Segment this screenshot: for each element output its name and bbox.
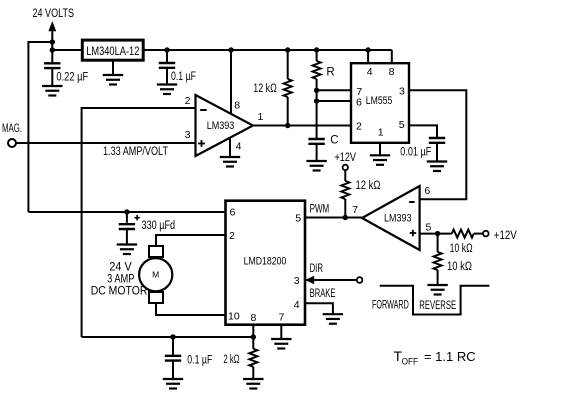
wire U4 pin5 — [420, 233, 452, 235]
svg-text:REVERSE: REVERSE — [419, 298, 456, 312]
capacitor C1 0.22uF — [44, 50, 60, 86]
capacitor C3 0.01uF — [429, 138, 445, 161]
op-amp U4 LM393 comparator — [362, 186, 420, 250]
svg-text:1: 1 — [378, 127, 384, 139]
svg-text:7: 7 — [352, 204, 358, 216]
svg-text:5: 5 — [426, 221, 432, 233]
wire comparator U1 pin4 to ground — [229, 138, 231, 157]
wire top rail — [143, 49, 392, 51]
ground C4 — [117, 245, 137, 255]
svg-text:24 V: 24 V — [109, 262, 132, 274]
svg-text:DIR: DIR — [310, 263, 323, 275]
svg-text:7: 7 — [279, 312, 285, 324]
resistor R1 12k vertical — [284, 50, 292, 126]
svg-text:8: 8 — [234, 100, 240, 112]
svg-text:3: 3 — [185, 129, 191, 141]
junction dot U2 pin4 rail — [365, 47, 370, 52]
junction dot R1 top — [285, 47, 290, 52]
ground C2 — [157, 85, 177, 95]
svg-text:DC MOTOR: DC MOTOR — [91, 285, 148, 297]
op-amp U1 LM393 comparator — [196, 95, 254, 156]
node +12V terminal upper — [335, 152, 357, 170]
svg-text:6: 6 — [230, 206, 236, 218]
wire U1 pin2 and left vertical rail — [82, 108, 196, 337]
svg-text:M: M — [152, 270, 159, 280]
svg-text:8: 8 — [389, 66, 395, 78]
svg-text:2: 2 — [356, 121, 362, 133]
wire pin6 LMD18200 horizontal — [28, 211, 226, 213]
wire U5 pin4 BRAKE to ground — [305, 303, 333, 314]
svg-text:1.33 AMP/VOLT: 1.33 AMP/VOLT — [103, 146, 168, 158]
svg-text:3: 3 — [294, 275, 300, 287]
svg-text:8: 8 — [251, 312, 257, 324]
resistor R3 10k horizontal — [452, 230, 483, 238]
junction dot R top — [314, 47, 319, 52]
ground C5 — [163, 379, 183, 389]
svg-text:5: 5 — [399, 119, 405, 131]
svg-text:3 AMP: 3 AMP — [107, 274, 135, 286]
ground U5 pin7 — [271, 339, 291, 349]
24V arrow terminal — [48, 21, 56, 50]
wire U5 pin7 ground stem — [280, 325, 282, 339]
svg-text:MAG.: MAG. — [2, 123, 22, 135]
wire motor bottom to U5 pin10 — [156, 303, 226, 315]
capacitor C timing — [308, 139, 324, 161]
svg-text:LM555: LM555 — [366, 95, 393, 107]
wire bottom rail — [82, 336, 254, 338]
svg-text:+12V: +12V — [494, 230, 517, 242]
wire 24V to regulator — [52, 49, 83, 51]
junction dot 330uF top — [124, 209, 129, 214]
capacitor C4 330uFd electrolytic — [119, 212, 140, 244]
wire motor top to U5 pin2 — [156, 235, 226, 246]
svg-text:2: 2 — [229, 230, 235, 242]
svg-text:0.01 µF: 0.01 µF — [400, 147, 431, 159]
svg-text:+12V: +12V — [335, 152, 357, 164]
resistor R5 2k vertical — [249, 337, 257, 379]
svg-text:3: 3 — [399, 85, 405, 97]
wire PWM LMD pin5 to U4 output — [305, 217, 362, 219]
resistor R4 10k vertical — [434, 234, 442, 285]
svg-text:LMD18200: LMD18200 — [244, 255, 287, 267]
ground C3 — [427, 162, 447, 172]
svg-text:R: R — [326, 67, 334, 79]
ground U2 pin1 — [370, 155, 390, 165]
capacitor C2 0.1uF — [159, 50, 175, 84]
svg-text:24 VOLTS: 24 VOLTS — [33, 8, 75, 20]
junction dot pin8 bottom rail — [251, 334, 256, 339]
junction dot C2 top — [164, 47, 169, 52]
regulator U3 LM340LA-12 — [82, 40, 143, 60]
svg-text:10: 10 — [228, 311, 240, 323]
svg-text:2 kΩ: 2 kΩ — [223, 354, 239, 366]
svg-text:6: 6 — [356, 96, 362, 108]
junction dot PWM node — [343, 215, 348, 220]
junction dot pin8 rail — [228, 47, 233, 52]
wire U2 pin6 — [317, 100, 351, 102]
svg-text:0.1 µF: 0.1 µF — [171, 71, 196, 83]
wire U1 output to U2 pin2 — [253, 125, 351, 127]
motor M1 — [139, 246, 172, 303]
node DIR terminal — [357, 277, 363, 283]
svg-text:LM340LA-12: LM340LA-12 — [86, 46, 139, 58]
junction dot 24V upper — [50, 39, 55, 44]
motor driver U5 LMD18200 — [226, 201, 306, 325]
wire U2 pin4 drop — [367, 50, 369, 63]
wire U2 pin7 — [317, 89, 351, 91]
junction dot pin6 — [314, 98, 319, 103]
ground C1 — [42, 86, 62, 96]
node +12V terminal right — [483, 230, 517, 242]
svg-text:12 kΩ: 12 kΩ — [356, 180, 381, 192]
svg-text:PWM: PWM — [310, 203, 330, 215]
svg-text:= 1.1 RC: = 1.1 RC — [424, 350, 476, 364]
svg-text:2: 2 — [185, 95, 191, 107]
ground U1 pin4 — [220, 157, 240, 167]
resistor R timing vertical — [313, 50, 321, 138]
svg-text:10 kΩ: 10 kΩ — [447, 261, 472, 273]
wire top-left corner to left rail — [28, 42, 52, 212]
ground BRAKE — [323, 314, 343, 324]
svg-text:4: 4 — [294, 299, 300, 311]
svg-text:BRAKE: BRAKE — [310, 288, 336, 300]
svg-text:OFF: OFF — [402, 356, 419, 367]
junction dot pin5 node — [435, 231, 440, 236]
svg-text:4: 4 — [367, 66, 373, 78]
wire MAG to U1 pin3 — [16, 142, 196, 144]
wire U2 pin1 ground stem — [379, 143, 381, 155]
capacitor C5 0.1uF bottom — [165, 337, 181, 379]
svg-text:12 kΩ: 12 kΩ — [253, 83, 277, 95]
ground R4 — [427, 285, 447, 295]
svg-text:0.1 µF: 0.1 µF — [187, 355, 212, 367]
svg-text:5: 5 — [295, 213, 301, 225]
ground regulator — [103, 75, 123, 85]
wire regulator ground stem — [112, 60, 114, 75]
resistor R2 12k vertical — [341, 170, 349, 217]
junction dot R1 bottom — [285, 123, 290, 128]
svg-text:0.22 µF: 0.22 µF — [56, 72, 88, 84]
wire U2 pin8 drop — [391, 50, 393, 63]
junction dot pin7 — [314, 88, 319, 93]
svg-text:1: 1 — [258, 111, 264, 123]
svg-text:6: 6 — [424, 185, 430, 197]
wire U2 pin5 — [409, 125, 437, 137]
svg-text:FORWARD: FORWARD — [372, 298, 409, 312]
svg-text:330 µFd: 330 µFd — [142, 220, 176, 232]
node MAG input terminal — [2, 123, 22, 147]
ground C — [306, 161, 326, 171]
junction dot 24V lower — [50, 47, 55, 52]
junction dot 0.1uF bottom — [170, 334, 175, 339]
svg-text:10 kΩ: 10 kΩ — [450, 243, 473, 255]
wire U5 pin8 drop — [252, 325, 254, 337]
svg-text:LM393: LM393 — [384, 213, 412, 225]
svg-text:4: 4 — [236, 140, 242, 152]
formula T OFF = 1.1 RC — [394, 348, 476, 367]
wire U2 pin3 to comparator U4 pin6 — [409, 90, 466, 199]
svg-text:C: C — [330, 135, 338, 147]
waveform FORWARD/REVERSE — [380, 286, 490, 315]
ground R5 — [243, 379, 263, 389]
timer U2 LM555 — [351, 63, 409, 143]
wire comparator U1 pin8 — [230, 50, 232, 114]
svg-text:LM393: LM393 — [207, 120, 235, 132]
wire U5 pin5 stub and DIR arrow — [305, 276, 357, 284]
